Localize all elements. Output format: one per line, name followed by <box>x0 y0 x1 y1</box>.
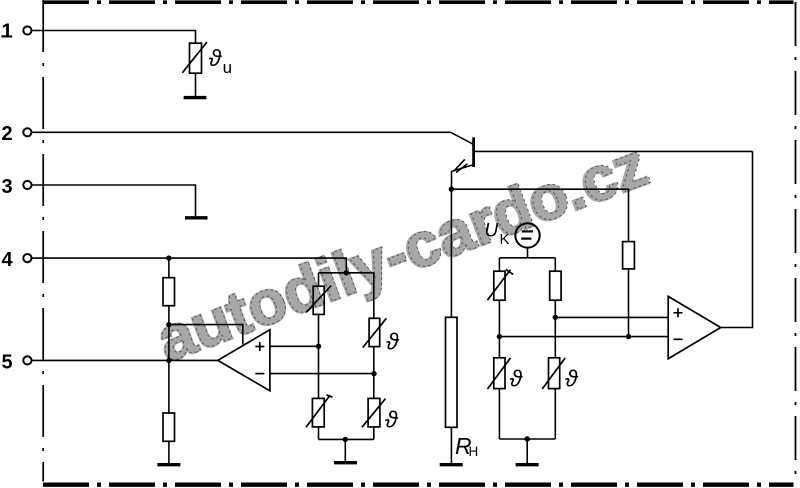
wire resistor to feedback node <box>168 306 170 361</box>
thermistor bridge2 bottom-left <box>488 358 511 389</box>
thermistor bridge2 bottom-right <box>542 358 565 389</box>
wire bridge2 right to bottom rail <box>554 389 556 439</box>
wire node to lower resistor <box>168 360 170 413</box>
thermistor bridge1 bottom-left <box>306 395 333 428</box>
node bridge1 left (+ input) <box>316 344 321 349</box>
wire feedback node to op-amp U1 body <box>169 325 243 345</box>
svg-text:ϑ: ϑ <box>386 328 400 354</box>
wire terminal 2 to transistor collector <box>32 131 451 133</box>
op-amp U1 (left pointing) <box>218 330 270 391</box>
resistor left chain top <box>163 278 175 306</box>
wire op-amp U1 + input to bridge1 left node <box>270 345 319 347</box>
wire bridge2 top-left branch <box>498 258 500 271</box>
wire bridge2 right node to op-amp U2 + input <box>555 316 668 318</box>
label U_K <box>485 221 510 249</box>
thermistor R_u (ambient temp sensor) <box>182 42 207 73</box>
thermistor bridge1 top-right <box>363 318 387 347</box>
ground (bridge 2) <box>516 463 539 466</box>
bridge 1 bottom rail <box>319 438 374 440</box>
wire thermistor to ground <box>195 73 197 96</box>
wire terminal 5 to op-amp U1 output <box>32 359 218 361</box>
bridge 1 top rail <box>319 272 374 274</box>
label R_H <box>455 433 478 459</box>
wire bridge1 right mid <box>373 347 375 399</box>
node bridge2 bottom <box>525 436 530 441</box>
svg-text:4: 4 <box>2 249 14 271</box>
op-amp U2 <box>668 296 721 358</box>
wire bridge1 left mid <box>318 314 320 398</box>
node on terminal 5 wire <box>166 358 171 363</box>
wire terminal 4 to bridge 1 top <box>32 258 347 273</box>
bridge 2 bottom rail <box>499 438 555 440</box>
svg-text:ϑ: ϑ <box>385 407 399 433</box>
wire R_H to ground <box>450 427 452 463</box>
terminal 1 <box>1 21 31 43</box>
wire bridge1 right to bottom rail <box>373 427 375 440</box>
terminal 4 <box>2 249 32 271</box>
bridge 2 top rail <box>499 257 555 259</box>
resistor right chain <box>623 242 635 269</box>
thermistor bridge1 bottom-right <box>362 398 386 427</box>
thermistor bridge1 top-left <box>306 286 331 315</box>
wire bridge2 bottom to ground <box>526 439 528 463</box>
resistor left chain bottom <box>163 413 175 441</box>
wire lower resistor to ground <box>168 441 170 463</box>
wire transistor emitter down to node E <box>451 171 453 189</box>
node bridge1 right (- input) <box>371 371 376 376</box>
voltage source U_K <box>515 223 539 247</box>
wire node E down to R_H <box>450 189 452 317</box>
transistor Q1 <box>451 132 474 172</box>
wire node to resistor <box>168 258 170 278</box>
ground (R_H) <box>440 463 463 466</box>
svg-text:5: 5 <box>2 351 13 373</box>
wire right chain resistor to node <box>628 269 630 337</box>
wire op-amp U2 output feedback to transistor base <box>721 151 753 327</box>
node bridge2 right (to op-amp U2 non-inverting) <box>553 315 558 320</box>
bridge 1 top node <box>344 270 349 275</box>
node right chain bottom <box>626 334 631 339</box>
wire bridge2 top-right branch <box>554 258 556 271</box>
node bridge1 bottom <box>343 437 348 442</box>
wire terminal 3 to ground <box>32 185 196 216</box>
wire bridge2 left node to op-amp U2 - input <box>499 336 668 338</box>
wire emitter rail to right chain <box>451 189 628 241</box>
terminal 3 <box>2 176 32 198</box>
svg-text:1: 1 <box>2 21 13 43</box>
watermark autodily-cardo.cz <box>148 129 658 376</box>
ground (bridge 1) <box>334 461 357 464</box>
svg-text:u: u <box>223 58 232 77</box>
wire bridge1 top-left branch <box>318 273 320 286</box>
wire bridge2 left to bottom rail <box>498 389 500 439</box>
svg-text:ϑ: ϑ <box>565 366 579 392</box>
node E (emitter junction) <box>449 187 454 192</box>
wire bridge2 left mid <box>498 300 500 358</box>
label theta_u <box>209 45 232 77</box>
ground (terminal 3) <box>185 216 208 219</box>
wire bridge1 left to bottom rail <box>318 427 320 440</box>
wire U_K to bridge 2 top rail <box>527 248 529 258</box>
svg-text:ϑ: ϑ <box>209 45 223 71</box>
wire op-amp U1 - input to bridge1 right node <box>270 373 374 375</box>
wire bridge1 top-right branch <box>373 273 375 319</box>
node feedback (left chain mid) <box>166 322 171 327</box>
resistor bridge2 top-right <box>550 271 561 300</box>
thermistor bridge2 top-left <box>487 269 513 300</box>
wire terminal 1 to thermistor <box>32 31 196 44</box>
ground (under theta_u) <box>184 96 207 99</box>
wire transistor base line to feedback <box>475 150 753 152</box>
terminal 2 <box>2 123 32 145</box>
svg-text:2: 2 <box>2 123 13 145</box>
ground (left chain) <box>157 463 180 466</box>
node bridge2 left (to op-amp U2 inverting) <box>497 334 502 339</box>
svg-text:3: 3 <box>2 176 13 198</box>
svg-text:ϑ: ϑ <box>510 366 524 392</box>
svg-text:autodily-cardo.cz: autodily-cardo.cz <box>148 129 658 376</box>
resistor R_H (hot wire) <box>446 317 458 427</box>
svg-text:H: H <box>469 444 479 459</box>
wire bridge1 bottom to ground <box>344 439 346 461</box>
wire bridge2 right mid <box>554 300 556 358</box>
terminal 5 <box>2 351 32 373</box>
left chain: node on terminal 4 wire <box>166 255 171 260</box>
